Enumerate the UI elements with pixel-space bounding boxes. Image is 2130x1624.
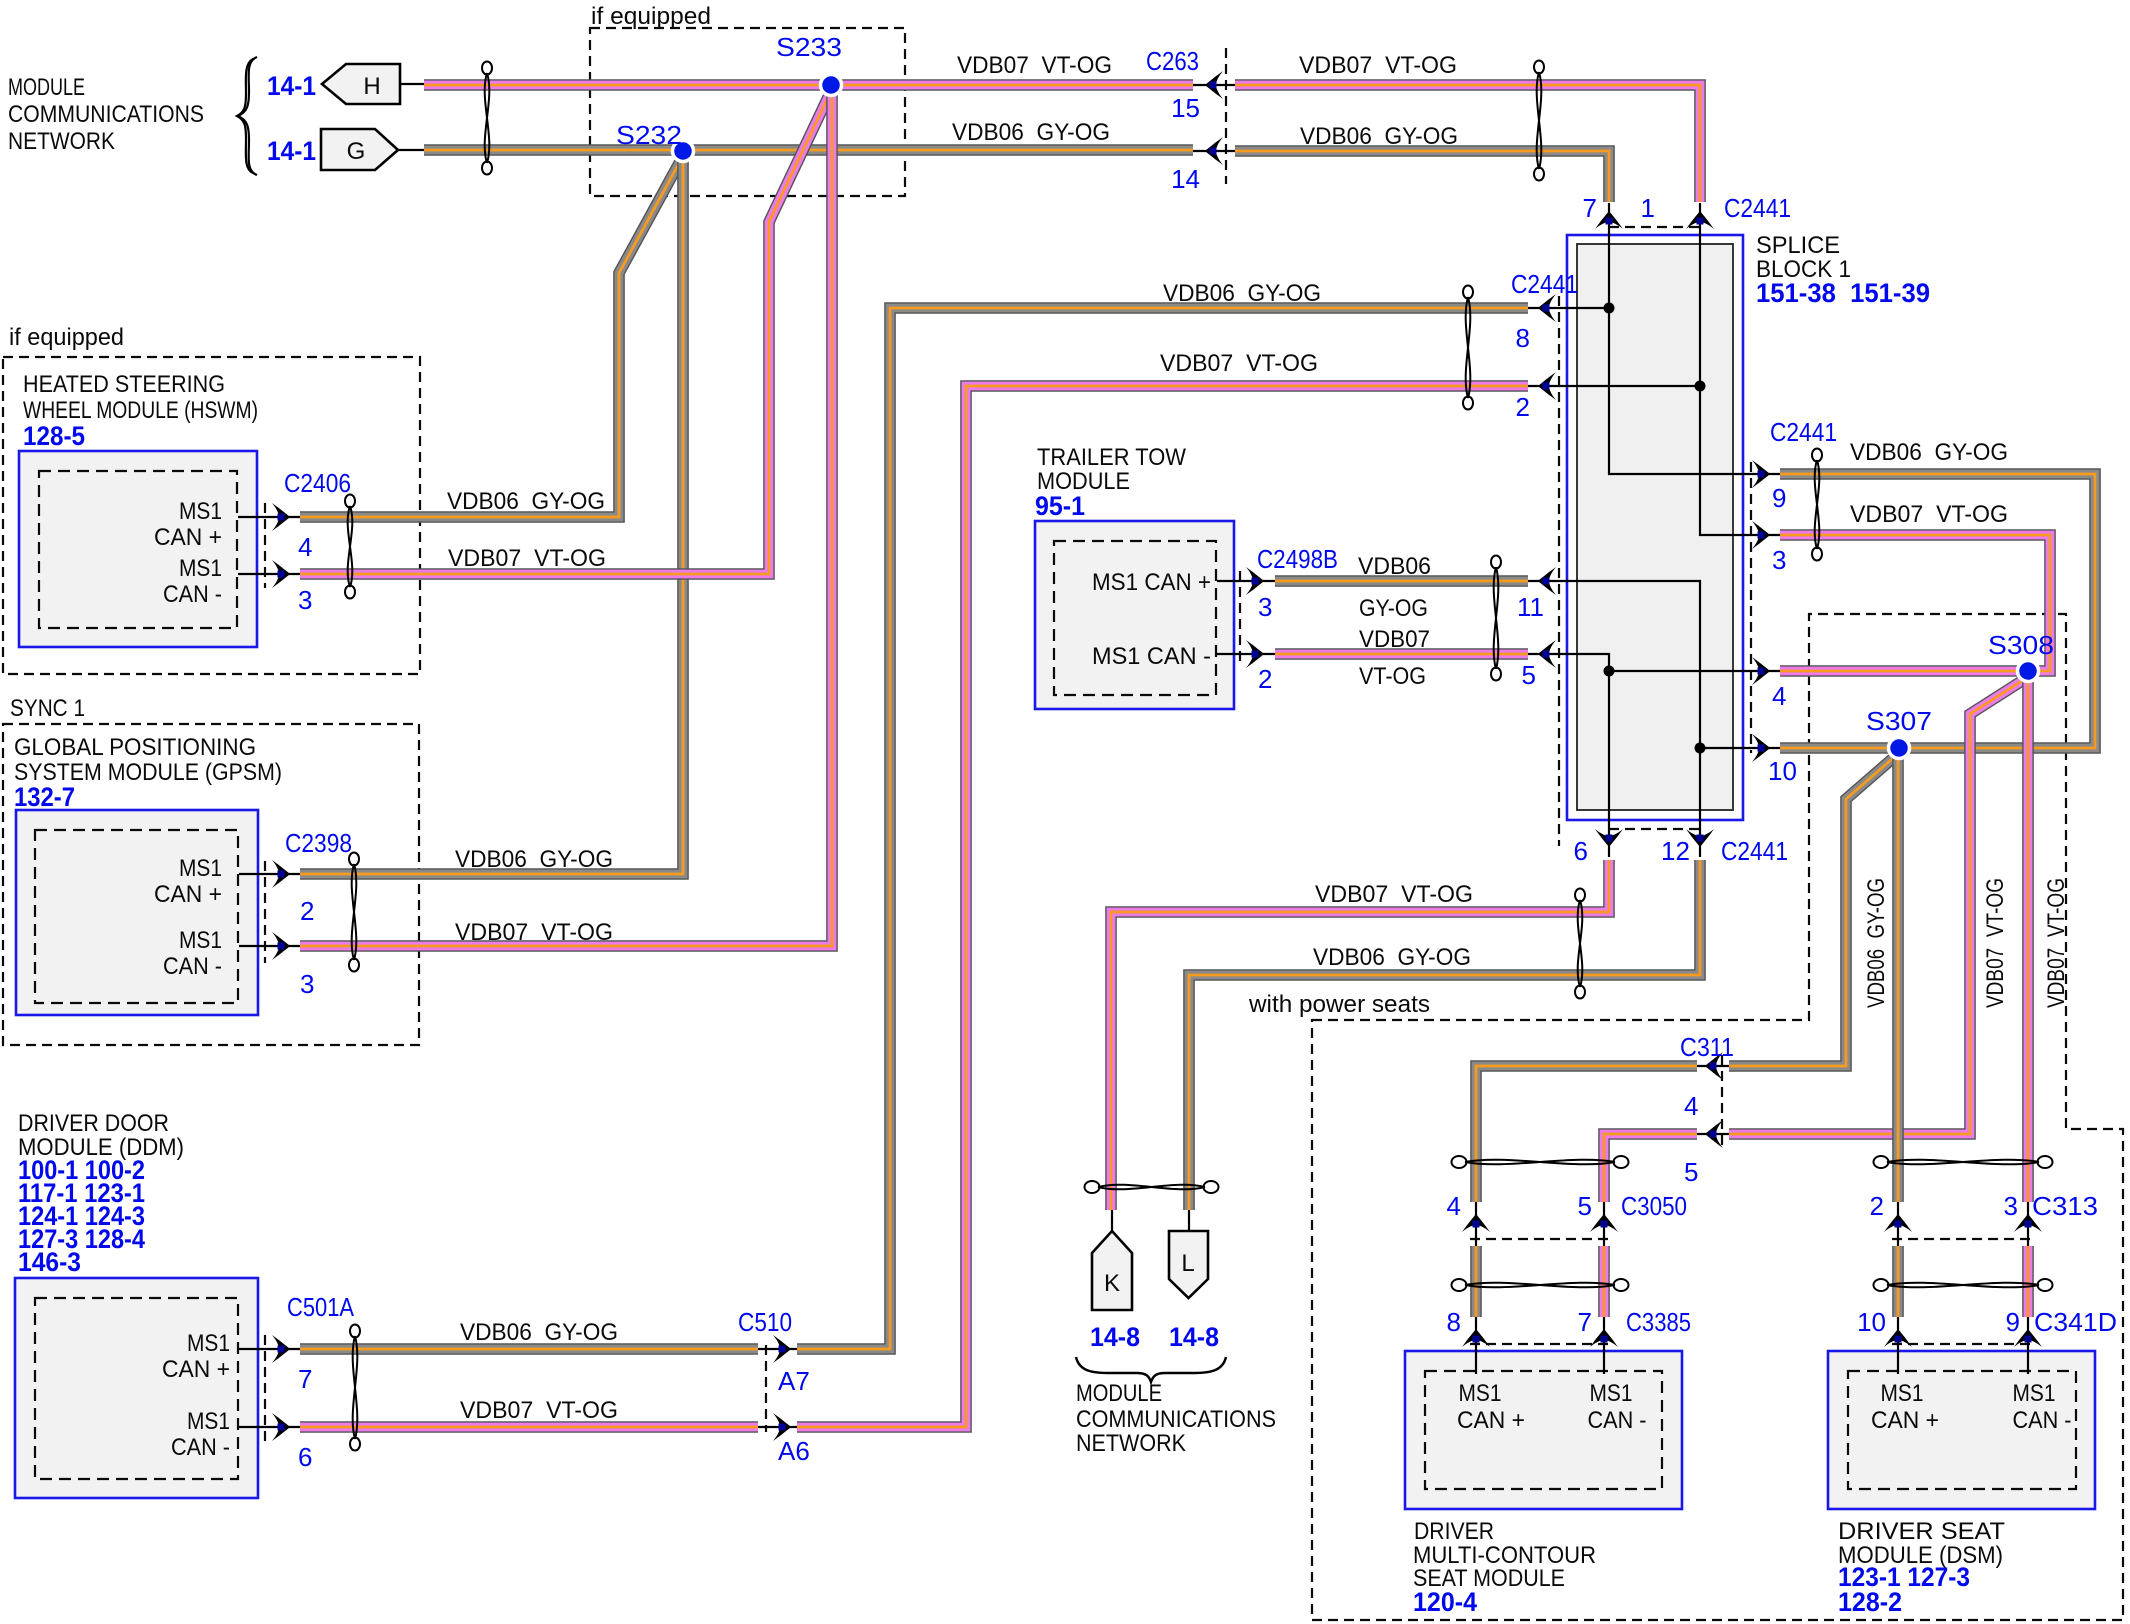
svg-text:SPLICE: SPLICE bbox=[1756, 232, 1840, 259]
pin arrow C2406-3 bbox=[272, 560, 290, 588]
pin C501A-7 bbox=[278, 1346, 285, 1353]
twist splice pins 8/2 pair bbox=[1463, 286, 1473, 410]
pin arrow C2498B-2 bbox=[1246, 640, 1264, 668]
svg-text:VDB07 VT-OG: VDB07 VT-OG bbox=[957, 52, 1112, 79]
pin C313-2 bbox=[1895, 1221, 1902, 1228]
svg-text:MS1: MS1 bbox=[1590, 1380, 1633, 1407]
svg-text:with power seats: with power seats bbox=[1248, 991, 1430, 1018]
svg-text:10: 10 bbox=[1857, 1307, 1886, 1337]
connector C313 dashed bbox=[1892, 1238, 2034, 1240]
svg-text:VDB06 GY-OG: VDB06 GY-OG bbox=[447, 488, 605, 515]
pin C2441-10 bbox=[1758, 745, 1765, 752]
wire VDB07 C3050 pin5 stub bbox=[1598, 1246, 1610, 1317]
pin arrow C510-A6 bbox=[773, 1413, 791, 1441]
svg-text:12: 12 bbox=[1661, 836, 1690, 866]
svg-text:14-8: 14-8 bbox=[1169, 1322, 1219, 1352]
connector C2441 left dashed bbox=[1558, 296, 1560, 846]
svg-text:VDB06 GY-OG: VDB06 GY-OG bbox=[1850, 439, 2008, 466]
splice S308 bbox=[2018, 661, 2039, 682]
svg-text:14-1: 14-1 bbox=[267, 71, 316, 101]
pin arrow C2441-12 bbox=[1686, 829, 1714, 847]
connector C263 dashed bbox=[1225, 48, 1227, 184]
wire VDB07 C263 to splice pin1 bbox=[1235, 85, 1700, 202]
svg-text:VDB07 VT-OG: VDB07 VT-OG bbox=[448, 545, 606, 572]
svg-text:DRIVER DOOR: DRIVER DOOR bbox=[18, 1110, 169, 1137]
svg-text:5: 5 bbox=[1522, 660, 1536, 690]
svg-text:COMMUNICATIONS: COMMUNICATIONS bbox=[1076, 1406, 1276, 1433]
pin C311-5 bbox=[1710, 1131, 1717, 1138]
svg-text:MS1: MS1 bbox=[187, 1408, 230, 1435]
svg-text:S308: S308 bbox=[1988, 630, 2054, 660]
wire VDB07 H main bbox=[424, 79, 1193, 91]
pin C2398-3 bbox=[278, 943, 285, 950]
module box DSM bbox=[1828, 1351, 2095, 1509]
svg-text:CAN +: CAN + bbox=[162, 1356, 230, 1383]
wire VDB07 DDM pin6 left bbox=[300, 1421, 758, 1433]
svg-text:6: 6 bbox=[298, 1442, 312, 1472]
module box TRAILER TOW bbox=[1035, 521, 1234, 709]
wire lead K bbox=[1111, 1210, 1113, 1233]
svg-text:C311: C311 bbox=[1680, 1032, 1734, 1062]
connector C341D dashed bbox=[1892, 1343, 2034, 1345]
twist C2498B pair bbox=[1491, 556, 1501, 681]
splice block 1 bbox=[1567, 235, 1743, 820]
wire VDB06 TTM pin3 bbox=[1275, 575, 1528, 587]
pin C2441-11 bbox=[1543, 578, 1550, 585]
wire splice net 7-8-9 bbox=[1609, 203, 1780, 474]
svg-text:S307: S307 bbox=[1866, 706, 1932, 736]
if-equipped box S232/S233 bbox=[590, 28, 905, 196]
svg-text:8: 8 bbox=[1516, 323, 1530, 353]
svg-text:2: 2 bbox=[300, 896, 314, 926]
module box DDM bbox=[15, 1278, 258, 1498]
svg-text:MS1: MS1 bbox=[179, 555, 222, 582]
wire VDB07 C313 pin3 stub bbox=[2022, 1246, 2034, 1317]
svg-text:C3385: C3385 bbox=[1626, 1307, 1691, 1337]
pin arrow C313-2 bbox=[1884, 1214, 1912, 1232]
svg-text:VDB06 GY-OG: VDB06 GY-OG bbox=[455, 846, 613, 873]
svg-text:7: 7 bbox=[1583, 193, 1597, 223]
pin arrow C2441-6 bbox=[1595, 829, 1623, 847]
wire VDB06 C313 pin2 stub bbox=[1892, 1246, 1904, 1317]
svg-text:if equipped: if equipped bbox=[591, 3, 711, 30]
svg-text:14-8: 14-8 bbox=[1090, 1322, 1140, 1352]
pin C2406-3 bbox=[278, 571, 285, 578]
svg-text:4: 4 bbox=[298, 532, 312, 562]
connector C2406 dashed bbox=[264, 503, 266, 588]
connector C3385 dashed bbox=[1470, 1343, 1612, 1345]
wire VDB06 C263 to splice pin7 bbox=[1235, 151, 1609, 202]
connector C510 dashed bbox=[765, 1345, 767, 1432]
wire VDB06 S307 to C311 pin4 right bbox=[1729, 753, 1899, 1066]
svg-text:VDB06 GY-OG: VDB06 GY-OG bbox=[952, 119, 1110, 146]
svg-text:WHEEL MODULE (HSWM): WHEEL MODULE (HSWM) bbox=[23, 397, 258, 424]
wire VDB07 S233 to GPSM pin3 bbox=[300, 91, 832, 946]
svg-text:A7: A7 bbox=[778, 1366, 810, 1396]
pin C311-4 bbox=[1710, 1063, 1717, 1070]
svg-text:CAN -: CAN - bbox=[171, 1434, 230, 1461]
pin arrow C2441-4 bbox=[1752, 657, 1770, 685]
wire lead C3050/C313 MCSM CAN- bbox=[1603, 1198, 1605, 1246]
twist C2406 pair bbox=[345, 495, 355, 599]
svg-text:S233: S233 bbox=[776, 32, 842, 62]
pin arrow C3385-8 bbox=[1462, 1329, 1490, 1347]
svg-text:MS1: MS1 bbox=[179, 498, 222, 525]
pin C2441-7 bbox=[1606, 218, 1613, 225]
pin arrow C2441-2 bbox=[1538, 372, 1556, 400]
brace left module communications network bbox=[238, 57, 257, 175]
twist before splice pins 7/1 bbox=[1534, 61, 1544, 181]
svg-text:VDB07 VT-OG: VDB07 VT-OG bbox=[1160, 350, 1318, 377]
connector C2498B dashed bbox=[1239, 571, 1241, 664]
svg-text:CAN -: CAN - bbox=[1588, 1407, 1647, 1434]
pin arrow C341D-10 bbox=[1884, 1329, 1912, 1347]
pin arrow C2406-4 bbox=[272, 503, 290, 531]
svg-text:MS1: MS1 bbox=[2013, 1380, 2056, 1407]
pin arrow C510-A7 bbox=[773, 1335, 791, 1363]
wire lead C3050/C313 DSM CAN- bbox=[2027, 1198, 2029, 1246]
svg-text:HEATED STEERING: HEATED STEERING bbox=[23, 371, 225, 398]
svg-text:3: 3 bbox=[298, 585, 312, 615]
svg-text:MS1 CAN +: MS1 CAN + bbox=[1092, 569, 1211, 596]
pin arrow C2441-3 bbox=[1752, 521, 1770, 549]
wire VDB06 G main bbox=[424, 144, 1193, 156]
wire lead C3385/C341D MCSM CAN- bbox=[1603, 1313, 1605, 1374]
pin C263-15 bbox=[1210, 82, 1217, 89]
pin arrow C2441-7 bbox=[1595, 211, 1623, 229]
svg-text:VDB06: VDB06 bbox=[1358, 553, 1431, 580]
svg-text:1: 1 bbox=[1641, 193, 1655, 223]
wire lead C263 pin14 bbox=[1190, 150, 1238, 152]
svg-text:MS1: MS1 bbox=[179, 855, 222, 882]
wire lead DDM pin6 bbox=[239, 1426, 300, 1428]
svg-text:VDB06 GY-OG: VDB06 GY-OG bbox=[1313, 944, 1471, 971]
pin arrow C311-4 bbox=[1705, 1052, 1723, 1080]
svg-text:NETWORK: NETWORK bbox=[1076, 1430, 1186, 1457]
SYNC1 box GPSM bbox=[3, 724, 419, 1045]
wire VDB06 S307 down to C313 pin2 bbox=[1892, 753, 1904, 1202]
module box MCSM bbox=[1405, 1351, 1682, 1509]
wire splice pin2 line bbox=[1528, 385, 1700, 387]
svg-text:5: 5 bbox=[1578, 1191, 1592, 1221]
svg-text:CAN -: CAN - bbox=[163, 953, 222, 980]
wire lead C3385/C341D DSM CAN+ bbox=[1897, 1313, 1899, 1374]
svg-text:C313: C313 bbox=[2032, 1191, 2098, 1221]
svg-text:CAN +: CAN + bbox=[1457, 1407, 1525, 1434]
svg-text:7: 7 bbox=[298, 1364, 312, 1394]
pin C3385-8 bbox=[1473, 1336, 1480, 1343]
svg-text:C501A: C501A bbox=[287, 1292, 355, 1322]
svg-text:9: 9 bbox=[1772, 483, 1786, 513]
svg-text:CAN -: CAN - bbox=[163, 581, 222, 608]
svg-text:C2441: C2441 bbox=[1724, 193, 1791, 223]
twist splice pins 6/12 pair bbox=[1575, 889, 1585, 999]
pin arrow C3050-4 bbox=[1462, 1214, 1490, 1232]
svg-text:C3050: C3050 bbox=[1621, 1191, 1687, 1221]
wire lead C3385/C341D DSM CAN- bbox=[2027, 1313, 2029, 1374]
svg-text:4: 4 bbox=[1772, 681, 1786, 711]
twist C341D pair bbox=[1874, 1279, 2053, 1291]
splice S233 bbox=[821, 75, 842, 96]
svg-text:G: G bbox=[347, 138, 366, 165]
pin C341D-10 bbox=[1895, 1336, 1902, 1343]
svg-text:151-38 151-39: 151-38 151-39 bbox=[1756, 278, 1930, 308]
pin arrow C501A-6 bbox=[272, 1413, 290, 1441]
wire lead L bbox=[1188, 1210, 1190, 1233]
pin arrow C2441-9 bbox=[1752, 460, 1770, 488]
svg-text:H: H bbox=[363, 73, 380, 100]
connector H bbox=[322, 64, 400, 104]
svg-text:VDB07 VT-OG: VDB07 VT-OG bbox=[1299, 52, 1457, 79]
pin C2441-5 bbox=[1543, 651, 1550, 658]
wire splice net 5-4-6 bbox=[1528, 654, 1609, 857]
connector L bbox=[1169, 1231, 1208, 1298]
svg-text:C2398: C2398 bbox=[285, 828, 352, 858]
brace bottom module communications network bbox=[1076, 1357, 1226, 1382]
svg-text:15: 15 bbox=[1171, 93, 1200, 123]
svg-text:TRAILER TOW: TRAILER TOW bbox=[1037, 444, 1186, 471]
svg-text:10: 10 bbox=[1768, 756, 1797, 786]
connector C2441 right dashed bbox=[1750, 462, 1752, 753]
wire lead DDM pin7 bbox=[239, 1348, 300, 1350]
svg-text:CAN +: CAN + bbox=[154, 524, 222, 551]
svg-text:14: 14 bbox=[1171, 164, 1200, 194]
svg-text:MODULE: MODULE bbox=[8, 74, 85, 101]
pin arrow C2441-8 bbox=[1538, 294, 1556, 322]
wire VDB07 TTM pin2 bbox=[1275, 648, 1528, 660]
svg-text:SYNC 1: SYNC 1 bbox=[10, 695, 85, 722]
pin arrow C2441-5 bbox=[1538, 640, 1556, 668]
pin arrow C263-15 bbox=[1205, 71, 1223, 99]
wire VDB07 splice pin3 pin4 to S308 bbox=[1780, 535, 2050, 671]
pin C2441-8 bbox=[1543, 305, 1550, 312]
pin C3050-5 bbox=[1601, 1221, 1608, 1228]
wire splice net 1-2-3 bbox=[1700, 203, 1780, 535]
pin arrow C2398-3 bbox=[272, 932, 290, 960]
wire lead TTM pin3 bbox=[1217, 580, 1275, 582]
splice S232 bbox=[673, 141, 694, 162]
wire lead G connector bbox=[396, 149, 424, 151]
svg-text:VDB07 VT-OG: VDB07 VT-OG bbox=[1850, 501, 2008, 528]
wire splice pin8 line bbox=[1528, 307, 1609, 309]
connector K bbox=[1092, 1231, 1132, 1310]
svg-text:C341D: C341D bbox=[2034, 1307, 2117, 1337]
wire lead C510 A6 bbox=[755, 1426, 800, 1428]
svg-text:DRIVER SEAT: DRIVER SEAT bbox=[1838, 1518, 2005, 1545]
wire lead C311 pin4 bbox=[1697, 1065, 1732, 1067]
junction splice block pin2 junction bbox=[1695, 381, 1706, 392]
wire lead C3385/C341D MCSM CAN+ bbox=[1475, 1313, 1477, 1374]
pin C2441-3r bbox=[1758, 532, 1765, 539]
wire VDB06 splice pin12 to L bbox=[1189, 860, 1700, 1210]
svg-text:VDB07 VT-OG: VDB07 VT-OG bbox=[460, 1397, 618, 1424]
svg-text:NETWORK: NETWORK bbox=[8, 128, 115, 155]
wire lead C263 pin15 bbox=[1190, 84, 1238, 86]
wire VDB07 S233 to HSWM pin3 bbox=[300, 91, 831, 574]
pin C2441-6 bbox=[1606, 835, 1613, 842]
svg-text:C2406: C2406 bbox=[284, 468, 351, 498]
pin C2398-2 bbox=[278, 871, 285, 878]
svg-text:4: 4 bbox=[1684, 1091, 1698, 1121]
svg-text:MS1: MS1 bbox=[179, 927, 222, 954]
svg-text:K: K bbox=[1104, 1270, 1120, 1297]
svg-text:3: 3 bbox=[1772, 545, 1786, 575]
svg-text:9: 9 bbox=[2006, 1307, 2020, 1337]
wire splice net 11-10-12 bbox=[1528, 581, 1700, 857]
wire lead HSWM pin4 bbox=[238, 516, 300, 518]
pin arrow C501A-7 bbox=[272, 1335, 290, 1363]
svg-text:VT-OG: VT-OG bbox=[1359, 663, 1426, 690]
svg-text:VDB07 VT-OG: VDB07 VT-OG bbox=[455, 919, 613, 946]
pin arrow C311-5 bbox=[1705, 1120, 1723, 1148]
wire splice pin10 line bbox=[1700, 747, 1780, 749]
svg-text:2: 2 bbox=[1258, 664, 1272, 694]
wire lead TTM pin2 bbox=[1217, 653, 1275, 655]
connector G bbox=[321, 129, 398, 170]
svg-text:C2441: C2441 bbox=[1721, 836, 1788, 866]
svg-text:95-1: 95-1 bbox=[1035, 491, 1085, 521]
if-equipped box HSWM bbox=[3, 357, 420, 674]
svg-text:MS1: MS1 bbox=[1459, 1380, 1502, 1407]
with-power-seats box bbox=[1312, 614, 2123, 1620]
twist H/G pair bbox=[482, 62, 492, 175]
svg-text:CAN +: CAN + bbox=[1871, 1407, 1939, 1434]
pin arrow C2441-10 bbox=[1752, 734, 1770, 762]
wire VDB06 C311 pin4 left to C3050 pin4 bbox=[1476, 1066, 1697, 1202]
pin C3050-4 bbox=[1473, 1221, 1480, 1228]
connector C501A dashed bbox=[264, 1335, 266, 1441]
svg-text:8: 8 bbox=[1447, 1307, 1461, 1337]
pin C2441-4r bbox=[1758, 668, 1765, 675]
wire lead H connector bbox=[398, 83, 424, 85]
svg-text:3: 3 bbox=[300, 969, 314, 999]
svg-text:C2441: C2441 bbox=[1511, 269, 1578, 299]
pin C510-A7 bbox=[779, 1346, 786, 1353]
svg-text:VDB07 VT-OG: VDB07 VT-OG bbox=[1315, 881, 1473, 908]
pin C501A-6 bbox=[278, 1424, 285, 1431]
svg-text:4: 4 bbox=[1447, 1191, 1461, 1221]
svg-text:S232: S232 bbox=[616, 120, 682, 150]
splice S307 bbox=[1889, 738, 1910, 759]
pin C2441-2 bbox=[1543, 383, 1550, 390]
pin arrow C3385-7 bbox=[1590, 1329, 1618, 1347]
wire VDB06 C3050 pin4 stub bbox=[1470, 1246, 1482, 1317]
wire VDB06 S232 to GPSM pin2 bbox=[300, 156, 683, 874]
svg-text:VDB07 VT-OG: VDB07 VT-OG bbox=[1982, 878, 2009, 1008]
twist C2398 pair bbox=[349, 853, 359, 972]
wire VDB07 DDM pin6 to splice pin2 bbox=[797, 386, 1528, 1427]
pin arrow C2398-2 bbox=[272, 860, 290, 888]
svg-text:3: 3 bbox=[2004, 1191, 2018, 1221]
module box HSWM bbox=[19, 451, 257, 647]
wire VDB06 DDM pin7 to splice pin8 bbox=[797, 308, 1528, 1349]
svg-text:146-3: 146-3 bbox=[18, 1247, 81, 1277]
svg-text:2: 2 bbox=[1516, 392, 1530, 422]
pin arrow C2441-11 bbox=[1538, 567, 1556, 595]
svg-text:120-4: 120-4 bbox=[1413, 1587, 1477, 1617]
wire lead C510 A7 bbox=[755, 1348, 800, 1350]
svg-text:VDB06 GY-OG: VDB06 GY-OG bbox=[460, 1319, 618, 1346]
pin C2498B-3 bbox=[1252, 578, 1259, 585]
connector C2441 bottom dashed bbox=[1609, 828, 1700, 830]
wire lead C3050/C313 MCSM CAN+ bbox=[1475, 1198, 1477, 1246]
svg-text:MS1: MS1 bbox=[187, 1330, 230, 1357]
twist splice pins 9/3 pair bbox=[1812, 449, 1822, 561]
svg-text:VDB06 GY-OG: VDB06 GY-OG bbox=[1863, 878, 1890, 1008]
pin C2441-9 bbox=[1758, 471, 1765, 478]
connector C3050 dashed bbox=[1470, 1238, 1612, 1240]
svg-text:128-2: 128-2 bbox=[1838, 1587, 1902, 1617]
svg-text:11: 11 bbox=[1517, 592, 1544, 622]
pin C3385-7 bbox=[1601, 1336, 1608, 1343]
pin C2441-12 bbox=[1697, 835, 1704, 842]
svg-text:3: 3 bbox=[1258, 592, 1272, 622]
svg-text:VDB07: VDB07 bbox=[1359, 626, 1430, 653]
svg-text:VDB07 VT-OG: VDB07 VT-OG bbox=[2043, 878, 2070, 1008]
svg-text:CAN -: CAN - bbox=[2013, 1407, 2072, 1434]
twist C501A pair bbox=[350, 1325, 360, 1451]
svg-text:2: 2 bbox=[1870, 1191, 1884, 1221]
pin C263-14 bbox=[1210, 148, 1217, 155]
wire VDB07 C311 pin5 left to C3050 pin5 bbox=[1604, 1134, 1697, 1202]
pin arrow C341D-9 bbox=[2014, 1329, 2042, 1347]
svg-text:GLOBAL POSITIONING: GLOBAL POSITIONING bbox=[14, 734, 256, 761]
pin C2441-1 bbox=[1697, 218, 1704, 225]
pin C341D-9 bbox=[2025, 1336, 2032, 1343]
twist C3385 pair bbox=[1452, 1279, 1629, 1291]
svg-text:MS1: MS1 bbox=[1881, 1380, 1924, 1407]
svg-text:C2441: C2441 bbox=[1770, 417, 1837, 447]
svg-text:A6: A6 bbox=[778, 1436, 810, 1466]
wire lead GPSM pin2 bbox=[239, 873, 300, 875]
wire VDB06 splice pin9 to pin10 bbox=[1780, 474, 2095, 748]
svg-text:MODULE: MODULE bbox=[1076, 1380, 1162, 1407]
svg-text:VDB06 GY-OG: VDB06 GY-OG bbox=[1300, 123, 1458, 150]
junction splice block pin10 junction bbox=[1695, 743, 1706, 754]
connector C2441 top dashed bbox=[1609, 226, 1700, 228]
pin arrow C313-3 bbox=[2014, 1214, 2042, 1232]
connector C2398 dashed bbox=[264, 861, 266, 963]
wire lead HSWM pin3 bbox=[238, 573, 300, 575]
wire lead C3050/C313 DSM CAN+ bbox=[1897, 1198, 1899, 1246]
module box GPSM bbox=[16, 810, 258, 1015]
svg-text:CAN +: CAN + bbox=[154, 881, 222, 908]
pin C313-3 bbox=[2025, 1221, 2032, 1228]
svg-text:C2498B: C2498B bbox=[1257, 544, 1338, 574]
svg-text:14-1: 14-1 bbox=[267, 136, 316, 166]
pin C2498B-2 bbox=[1252, 651, 1259, 658]
pin arrow C263-14 bbox=[1205, 137, 1223, 165]
svg-text:128-5: 128-5 bbox=[23, 421, 85, 451]
junction splice block pin8 junction bbox=[1604, 303, 1615, 314]
wire lead GPSM pin3 bbox=[239, 945, 300, 947]
svg-text:GY-OG: GY-OG bbox=[1359, 595, 1428, 622]
pin arrow C3050-5 bbox=[1590, 1214, 1618, 1232]
svg-text:C510: C510 bbox=[738, 1307, 792, 1337]
twist C3050 pair bbox=[1452, 1156, 1629, 1168]
svg-text:VDB06 GY-OG: VDB06 GY-OG bbox=[1163, 280, 1321, 307]
svg-text:DRIVER: DRIVER bbox=[1414, 1518, 1494, 1545]
pin C2406-4 bbox=[278, 514, 285, 521]
wire VDB07 S308 down to C313 pin3 bbox=[2022, 677, 2034, 1202]
wire splice pin4 line bbox=[1609, 670, 1780, 672]
junction splice block pin4 junction bbox=[1604, 666, 1615, 677]
wire VDB07 splice pin6 to K bbox=[1111, 860, 1609, 1210]
connector C311 dashed bbox=[1721, 1055, 1723, 1145]
pin arrow C2498B-3 bbox=[1246, 567, 1264, 595]
svg-text:C263: C263 bbox=[1146, 46, 1199, 76]
svg-text:7: 7 bbox=[1578, 1307, 1592, 1337]
